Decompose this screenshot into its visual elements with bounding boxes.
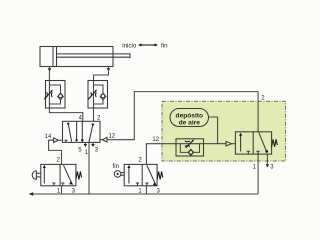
wire V3 to timer pilot <box>204 143 227 145</box>
svg-text:2: 2 <box>261 95 265 101</box>
5/2 exhaust 5 arrow <box>84 142 88 147</box>
svg-text:12: 12 <box>108 134 115 140</box>
wire reservoir to pilot line <box>209 117 218 144</box>
wire V1 to 5/2 valve port 4 <box>49 108 82 121</box>
green shaded timer region <box>162 101 286 161</box>
exhaust 3 arrow <box>266 154 270 167</box>
cylinder A1 (double acting) <box>40 47 130 67</box>
flow control valve V3 in timer (throttle + check) <box>176 139 204 156</box>
wire V2 to 5/2 valve port 2 <box>93 108 95 121</box>
label inicio-fin stroke arrow <box>122 42 168 49</box>
svg-text:de aire: de aire <box>179 119 201 126</box>
wire fin port 2 to timer pilot (through V3) <box>146 144 176 165</box>
svg-text:depósito: depósito <box>176 112 203 119</box>
svg-text:fin: fin <box>113 163 120 170</box>
wire 5/2 port 1 to bus <box>88 142 90 194</box>
svg-text:12: 12 <box>152 137 159 143</box>
spring (fin valve) <box>157 172 163 180</box>
roller actuator <box>114 171 124 178</box>
air reservoir callout (deposito de aire) <box>170 109 209 127</box>
wire cylinder left port to flow valve V1 <box>48 67 50 81</box>
5/2 exhaust 3 arrow <box>91 142 95 147</box>
svg-text:1: 1 <box>253 164 257 170</box>
timer 3/2 valve U2 <box>235 132 271 154</box>
svg-text:3: 3 <box>95 148 99 154</box>
valve V-inicio 3/2 push button <box>41 164 76 185</box>
5/2 directional valve U1 <box>63 121 101 142</box>
wire pilot 14 net from valve V-inicio port 2 <box>49 140 62 164</box>
spring (inicio valve) <box>76 172 82 180</box>
wire cylinder right port to flow valve V2 <box>94 67 109 81</box>
wire pilot to timer valve <box>232 143 236 145</box>
cylinder right port arrow <box>107 68 111 71</box>
svg-text:inicio: inicio <box>122 42 137 49</box>
pilot 14 symbol <box>54 138 63 143</box>
flow control valve V1 (throttle + check) <box>44 81 65 109</box>
svg-text:2: 2 <box>57 158 61 164</box>
svg-text:1: 1 <box>85 150 89 156</box>
pilot 12 symbol <box>100 137 107 142</box>
spring (timer valve) <box>272 139 278 147</box>
wire inicio port 1 to bus <box>61 186 63 194</box>
wire timer port 1 to bus <box>257 154 259 194</box>
wire pilot 12 net from timer valve port 2 <box>107 92 258 140</box>
air supply bus <box>29 192 259 196</box>
svg-text:5: 5 <box>78 148 82 154</box>
valve V-fin 3/2 roller <box>124 164 157 185</box>
svg-text:14: 14 <box>45 134 52 140</box>
cylinder left port arrow <box>48 68 52 71</box>
svg-text:2: 2 <box>97 116 101 122</box>
svg-text:3: 3 <box>270 164 274 170</box>
svg-text:fin: fin <box>161 42 168 49</box>
svg-text:2: 2 <box>138 158 142 164</box>
push button actuator <box>32 171 41 179</box>
wire fin port 1 to bus <box>145 186 147 194</box>
svg-text:4: 4 <box>79 116 83 122</box>
flow control valve V2 (throttle + check) <box>88 81 108 109</box>
timer pilot symbol <box>226 141 232 146</box>
